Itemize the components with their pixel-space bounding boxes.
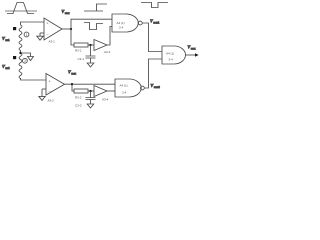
node C xyxy=(71,83,73,85)
coil winding 2 xyxy=(19,53,22,79)
svg-text:C3-1: C3-1 xyxy=(77,57,84,61)
label Vout A1-2 xyxy=(68,70,77,76)
terminal square bottom xyxy=(13,56,16,59)
svg-text:3-4: 3-4 xyxy=(169,58,174,62)
notch waveform sketch at gate input xyxy=(84,23,103,30)
svg-text:2-4: 2-4 xyxy=(122,91,127,95)
step waveform sketch xyxy=(84,4,107,11)
svg-text:вых: вых xyxy=(65,12,70,15)
node B xyxy=(89,44,91,46)
winding 1 circled label xyxy=(24,32,29,37)
ground at C3-1 xyxy=(87,63,94,67)
NAND gate A4-2 xyxy=(115,79,141,97)
wire R to buffer 2 xyxy=(88,90,94,92)
capacitor C3-2 xyxy=(86,91,96,104)
wire final output xyxy=(185,54,195,56)
wire inverting input xyxy=(40,32,44,34)
op-amp A1-2 xyxy=(46,74,65,96)
svg-text:вых: вых xyxy=(71,73,76,76)
label Vtop xyxy=(62,9,71,15)
bubble A4-1 xyxy=(138,21,142,25)
coil winding 1 xyxy=(19,25,22,53)
AND gate A4-3 xyxy=(162,46,186,64)
wire A1-1 output xyxy=(62,28,71,30)
wire coil bottom to comparator 2 xyxy=(21,78,47,80)
svg-text:вх1: вх1 xyxy=(5,38,10,42)
wire buffer 2 to gate 2 xyxy=(107,90,115,92)
svg-text:A3-1: A3-1 xyxy=(49,40,56,44)
capacitor C3-1 xyxy=(86,45,96,63)
buffer A3-3 xyxy=(94,40,107,51)
svg-text:A4 (1): A4 (1) xyxy=(117,21,125,25)
svg-text:вых1: вых1 xyxy=(153,21,160,25)
ground at C3-2 xyxy=(87,104,94,108)
svg-text:A3-4: A3-4 xyxy=(102,98,109,102)
arrowhead xyxy=(195,53,199,57)
ground center tap xyxy=(28,57,34,61)
node A xyxy=(70,28,72,30)
svg-text:A3-2: A3-2 xyxy=(48,99,55,103)
node D xyxy=(89,90,91,92)
wire coil top to comparator xyxy=(21,22,45,25)
svg-text:R3-2: R3-2 xyxy=(75,96,82,100)
svg-text:2: 2 xyxy=(24,59,26,63)
svg-text:–: – xyxy=(47,32,49,36)
wire node C down to R xyxy=(72,84,74,91)
wire gate 1 output xyxy=(142,23,162,52)
terminal square top xyxy=(13,27,16,30)
bubble A4-2 xyxy=(141,86,145,90)
svg-text:A4 (1): A4 (1) xyxy=(166,52,174,56)
resistor R3-1 xyxy=(74,43,88,47)
svg-text:вх2: вх2 xyxy=(5,66,10,70)
wire node A down to R xyxy=(71,29,74,45)
output notch waveform sketch xyxy=(141,3,168,8)
winding 2 circled label xyxy=(23,58,28,63)
svg-text:+: + xyxy=(47,22,49,26)
input trapezoid waveform pulse xyxy=(7,3,34,14)
resistor R3-2 xyxy=(74,89,88,93)
ground at A1-1 input xyxy=(37,33,43,40)
wire R to buffer xyxy=(88,44,94,46)
svg-text:+: + xyxy=(49,79,51,83)
svg-text:вых2: вых2 xyxy=(154,85,161,89)
wire node A to gate input 1 xyxy=(71,19,112,29)
label Vout1 xyxy=(150,19,160,25)
junction dot center tap xyxy=(19,52,21,54)
wire inverting input 2 xyxy=(42,88,46,90)
svg-text:1: 1 xyxy=(26,33,28,37)
svg-text:2-4: 2-4 xyxy=(119,26,124,30)
wire center tap to ground xyxy=(21,53,31,57)
label Vout2 xyxy=(151,83,161,89)
wire buffer to gate input 2 xyxy=(107,27,112,46)
svg-text:C3-2: C3-2 xyxy=(75,104,82,108)
input trapezoid waveform baseline xyxy=(5,10,37,12)
svg-text:–: – xyxy=(49,89,51,93)
svg-text:A3-3: A3-3 xyxy=(104,50,111,54)
svg-text:R3-1: R3-1 xyxy=(75,49,82,53)
svg-text:вых: вых xyxy=(191,48,196,51)
buffer A3-4 xyxy=(94,86,107,97)
op-amp A1-1 xyxy=(44,18,62,40)
ground at A1-2 input xyxy=(39,89,45,100)
label Vin1 xyxy=(2,36,10,42)
wire gate 2 output xyxy=(144,59,162,88)
NAND gate A4-1 xyxy=(112,14,138,32)
svg-text:A4 (1): A4 (1) xyxy=(120,84,128,88)
label Vout final xyxy=(188,45,197,51)
label Vin2 xyxy=(2,64,10,70)
wire A1-2 output to gate 2 xyxy=(65,83,116,85)
